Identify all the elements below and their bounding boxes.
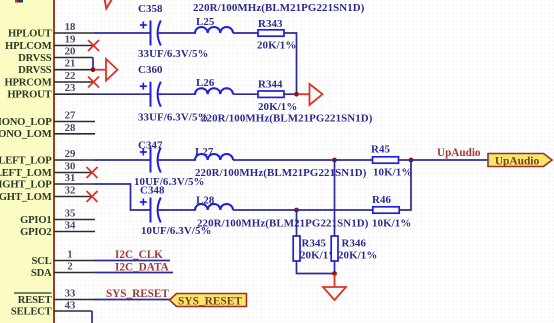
- wire pin43 down: [91, 311, 93, 323]
- inductor L27: [195, 146, 367, 179]
- pin SELECT 43: [11, 300, 92, 318]
- resistor R45: [371, 144, 412, 179]
- svg-text:19: 19: [65, 34, 76, 46]
- junction A: [332, 158, 337, 163]
- svg-text:220R/100MHz(BLM21PG221SN1D): 220R/100MHz(BLM21PG221SN1D): [201, 113, 373, 125]
- IC U1 body: [0, 0, 54, 323]
- pin HPLCOM 19: [5, 34, 93, 53]
- inductor L25: [193, 2, 365, 33]
- svg-text:RESET: RESET: [18, 295, 52, 306]
- svg-text:SDA: SDA: [31, 268, 52, 279]
- svg-text:22: 22: [65, 70, 76, 82]
- resistor R345: [293, 236, 339, 262]
- wire R345 bottom to ground junction: [297, 261, 335, 274]
- svg-text:HPLOUT: HPLOUT: [8, 29, 52, 40]
- svg-text:C358: C358: [138, 3, 163, 15]
- pin MONO_LOM 28: [0, 122, 95, 140]
- svg-text:SYS_RESET: SYS_RESET: [178, 296, 242, 308]
- svg-text:34: 34: [65, 220, 76, 232]
- svg-text:30: 30: [65, 161, 76, 173]
- svg-text:20K/1%: 20K/1%: [258, 101, 297, 113]
- svg-text:LEFT_LOM: LEFT_LOM: [0, 168, 52, 179]
- capacitor C358: [138, 3, 208, 60]
- no-connect X on pin 32: [87, 191, 98, 202]
- svg-text:18: 18: [65, 21, 76, 33]
- svg-text:C348: C348: [140, 185, 165, 197]
- wire C348 to L28: [161, 209, 196, 211]
- junction pin21: [91, 67, 96, 72]
- pin GPIO2 34: [20, 220, 95, 239]
- pin RIGHT_LOM 32: [0, 185, 92, 204]
- pin SDA 2: [31, 261, 94, 280]
- svg-text:220R/100MHz(BLM21PG221SN1D): 220R/100MHz(BLM21PG221SN1D): [197, 218, 369, 230]
- wire L26 to R344: [233, 93, 258, 95]
- no-ERC triangle at HPROUT net: [299, 84, 323, 105]
- wire C347 to L27: [161, 159, 196, 161]
- svg-text:HPRCOM: HPRCOM: [4, 78, 51, 89]
- no-connect X on pin 22: [88, 77, 99, 88]
- wire HPROUT row: [94, 93, 150, 95]
- svg-text:R346: R346: [342, 238, 367, 250]
- pin RESET 33 (active low): [14, 288, 94, 307]
- wire HPLOUT row: [94, 32, 150, 34]
- svg-text:33UF/6.3V/5%: 33UF/6.3V/5%: [138, 112, 208, 124]
- port UpAudio: [488, 154, 552, 168]
- wire junction A to R45: [335, 159, 374, 161]
- wire R346 bottom to ground junction: [334, 261, 336, 274]
- wire L28 to junction C: [233, 209, 297, 211]
- inductor L28: [195, 195, 369, 230]
- pin HPROUT 23: [7, 82, 94, 101]
- wire R343 to corner: [284, 33, 297, 94]
- resistor R346: [331, 236, 377, 262]
- wire L25 to R343: [233, 32, 258, 34]
- pin HPLOUT 18: [8, 21, 94, 40]
- svg-text:UpAudio: UpAudio: [495, 156, 540, 168]
- svg-text:DRVSS: DRVSS: [18, 65, 52, 76]
- svg-text:27: 27: [65, 110, 76, 122]
- svg-text:L25: L25: [196, 16, 215, 28]
- svg-text:23: 23: [65, 82, 76, 94]
- svg-text:35: 35: [65, 208, 76, 220]
- wire SCL: [94, 260, 170, 262]
- svg-text:MONO_LOP: MONO_LOP: [0, 117, 52, 128]
- svg-text:HPLCOM: HPLCOM: [5, 41, 52, 52]
- wire junction A down to R346: [334, 160, 336, 236]
- capacitor C348: [140, 185, 212, 238]
- svg-text:220R/100MHz(BLM21PG221SN1D): 220R/100MHz(BLM21PG221SN1D): [193, 2, 365, 14]
- junction HPROUT net: [294, 92, 299, 97]
- svg-text:SYS_RESET: SYS_RESET: [106, 288, 169, 300]
- capacitor C347: [134, 140, 204, 189]
- pin DRVSS 21: [18, 58, 93, 77]
- svg-text:DRVSS: DRVSS: [18, 53, 52, 64]
- svg-text:GPIO1: GPIO1: [20, 215, 51, 226]
- svg-text:UpAudio: UpAudio: [437, 147, 481, 159]
- top cut-off marker: [15, 0, 115, 9]
- pin SCL 1: [31, 249, 94, 268]
- svg-text:R345: R345: [302, 238, 327, 250]
- svg-text:SELECT: SELECT: [11, 307, 52, 318]
- svg-text:R344: R344: [258, 79, 283, 91]
- svg-text:RIGHT_LOP: RIGHT_LOP: [0, 180, 52, 191]
- junction UpAudio: [409, 158, 414, 163]
- wire SDA: [94, 272, 173, 274]
- svg-text:20: 20: [65, 46, 76, 58]
- resistor R46: [372, 194, 411, 230]
- svg-text:GPIO2: GPIO2: [20, 227, 51, 238]
- svg-text:R46: R46: [372, 194, 392, 206]
- svg-text:RIGHT_LOM: RIGHT_LOM: [0, 192, 52, 203]
- svg-text:33UF/6.3V/5%: 33UF/6.3V/5%: [138, 48, 208, 60]
- svg-text:1: 1: [67, 249, 72, 261]
- resistor R344: [258, 79, 297, 114]
- svg-text:220R/100MHz(BLM21PG221SN1D): 220R/100MHz(BLM21PG221SN1D): [195, 167, 367, 179]
- svg-text:10K/1%: 10K/1%: [373, 167, 412, 179]
- port SYS_RESET: [170, 294, 247, 308]
- svg-text:43: 43: [65, 300, 76, 312]
- pin MONO_LOP 27: [0, 110, 95, 129]
- svg-text:R343: R343: [258, 18, 283, 30]
- inductor L26: [195, 77, 373, 125]
- svg-text:SCL: SCL: [31, 256, 51, 267]
- pin LEFT_LOM 30: [0, 161, 92, 180]
- svg-text:20K/1%: 20K/1%: [338, 250, 377, 262]
- svg-text:C360: C360: [138, 64, 163, 76]
- wire RESET to port: [94, 299, 170, 301]
- wire junction C to R46: [297, 209, 374, 211]
- svg-text:31: 31: [65, 172, 76, 184]
- wire C360 to L26: [161, 93, 196, 95]
- svg-text:L26: L26: [196, 77, 215, 89]
- svg-text:20K/1%: 20K/1%: [257, 40, 296, 52]
- svg-text:28: 28: [65, 122, 76, 134]
- svg-text:R45: R45: [371, 144, 391, 156]
- junction ground: [332, 271, 337, 276]
- wire C358 to L25: [161, 32, 196, 34]
- wire R46 up to UpAudio junction: [399, 160, 411, 210]
- wire R344 to junction: [284, 93, 297, 95]
- svg-text:21: 21: [65, 58, 76, 70]
- svg-text:2: 2: [67, 261, 72, 273]
- wire LEFT_LOP row: [94, 159, 150, 161]
- no-connect X on pin 19: [88, 40, 99, 51]
- pin LEFT_LOP 29: [0, 148, 94, 167]
- svg-text:I2C_CLK: I2C_CLK: [115, 249, 163, 261]
- wire RIGHT_LOP row: [94, 184, 150, 210]
- svg-text:33: 33: [65, 288, 76, 300]
- svg-text:I2C_DATA: I2C_DATA: [115, 262, 169, 274]
- svg-text:MONO_LOM: MONO_LOM: [0, 129, 52, 140]
- pin HPRCOM 22: [4, 70, 93, 89]
- no-ERC triangle at pin 21: [95, 59, 118, 81]
- wire to port UpAudio: [411, 159, 488, 161]
- svg-text:HPROUT: HPROUT: [7, 90, 51, 101]
- ground: [323, 274, 346, 300]
- wire R45 to junction B: [399, 159, 412, 161]
- svg-text:29: 29: [65, 148, 76, 160]
- junction C: [294, 208, 299, 213]
- svg-text:10K/1%: 10K/1%: [372, 218, 411, 230]
- wire junction C down to R345: [296, 210, 298, 236]
- svg-text:LEFT_LOP: LEFT_LOP: [0, 156, 52, 167]
- no-connect X on pin 30: [87, 167, 98, 178]
- pin GPIO1 35: [20, 208, 95, 227]
- resistor R343: [257, 18, 296, 52]
- wire L27 to junction A: [233, 159, 335, 161]
- svg-text:32: 32: [65, 185, 76, 197]
- wire pin20 to pin21: [92, 58, 94, 70]
- pin RIGHT_LOP 31: [0, 172, 94, 191]
- capacitor C360: [138, 64, 208, 124]
- pin DRVSS 20: [18, 46, 93, 65]
